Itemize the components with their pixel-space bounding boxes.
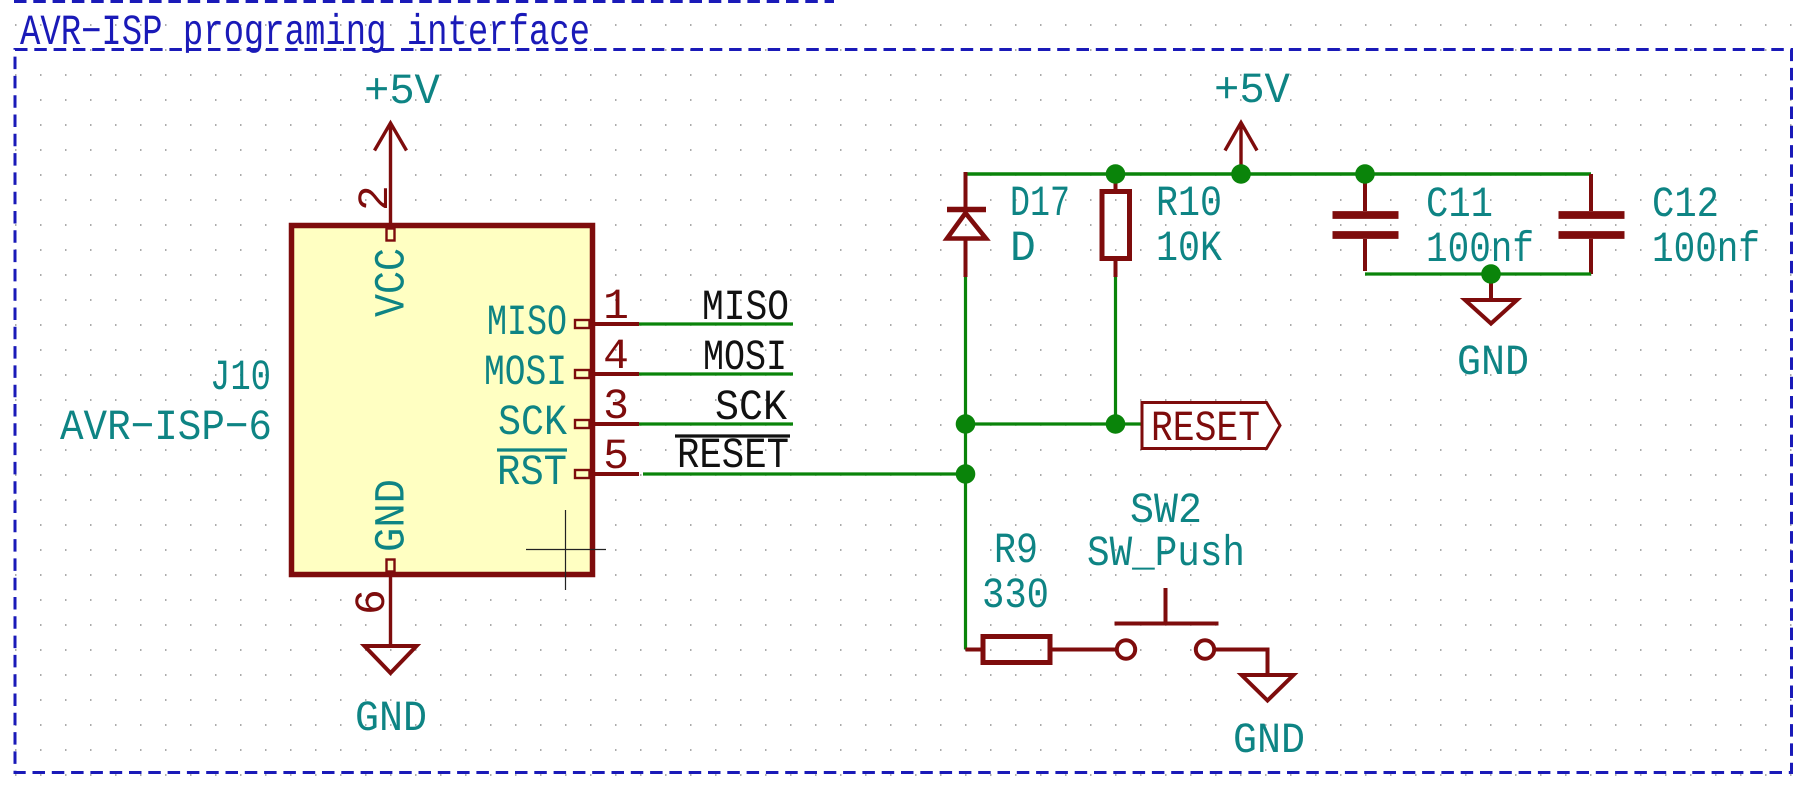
- junction node (965.5,474): [956, 464, 976, 484]
- svg-text:+5V: +5V: [1214, 66, 1290, 115]
- pin 4 stub: [575, 370, 590, 378]
- svg-text:SCK: SCK: [498, 398, 567, 447]
- svg-text:5: 5: [603, 432, 629, 481]
- pin 5 stub: [575, 470, 590, 478]
- global label RESET: [1142, 403, 1280, 449]
- pin 1 stub: [575, 320, 590, 328]
- junction node (1115.5,174): [1106, 164, 1126, 184]
- svg-text:2: 2: [351, 185, 400, 211]
- power +5V symbol (right): [1225, 123, 1257, 175]
- svg-text:RESET: RESET: [677, 431, 789, 480]
- svg-text:MISO: MISO: [487, 298, 567, 347]
- junction node (1491,274): [1481, 264, 1501, 284]
- junction node (965.5,424): [956, 414, 976, 434]
- svg-text:AVR−ISP−6: AVR−ISP−6: [60, 403, 272, 452]
- junction node (1241,174): [1231, 164, 1251, 184]
- pin 6 stub: [387, 560, 395, 572]
- svg-text:GND: GND: [368, 479, 417, 552]
- svg-text:330: 330: [982, 571, 1049, 620]
- wire +5V rail: [966, 172, 1592, 175]
- svg-text:C11: C11: [1426, 180, 1493, 229]
- RST overline: [497, 448, 567, 451]
- svg-text:10K: 10K: [1156, 224, 1222, 273]
- wire to RESET global label: [966, 422, 1142, 425]
- svg-text:R9: R9: [994, 526, 1038, 575]
- pin 3 SCK line: [594, 422, 639, 426]
- wire SCK: [639, 422, 793, 425]
- svg-text:D17: D17: [1010, 179, 1070, 228]
- svg-text:C12: C12: [1652, 180, 1719, 229]
- wire capacitor ground bus: [1365, 272, 1591, 275]
- svg-text:GND: GND: [1233, 716, 1305, 765]
- svg-text:J10: J10: [210, 353, 271, 402]
- junction node (1365,174): [1355, 164, 1375, 184]
- svg-text:AVR−ISP programing interface: AVR−ISP programing interface: [20, 8, 590, 57]
- pin 3 stub: [575, 420, 590, 428]
- svg-text:6: 6: [348, 589, 397, 615]
- svg-text:MOSI: MOSI: [703, 333, 787, 382]
- wire MISO: [639, 322, 793, 325]
- wire D17 branch down: [964, 277, 967, 650]
- ground symbol (capacitors): [1465, 274, 1517, 324]
- svg-text:GND: GND: [355, 694, 427, 743]
- svg-text:SW2: SW2: [1130, 486, 1202, 535]
- svg-text:100nf: 100nf: [1426, 225, 1534, 274]
- wire R10 branch down: [1114, 277, 1117, 424]
- svg-text:RST: RST: [497, 448, 567, 497]
- connector J10 body: [292, 226, 593, 575]
- junction node (1115.5,424): [1106, 414, 1126, 434]
- pin 4 MOSI line: [594, 372, 639, 376]
- pin 6 line: [389, 577, 392, 646]
- capacitor C11: [1333, 177, 1399, 271]
- svg-text:3: 3: [603, 382, 629, 431]
- svg-text:MISO: MISO: [702, 283, 789, 332]
- svg-text:VCC: VCC: [368, 248, 417, 317]
- svg-text:+5V: +5V: [364, 67, 440, 116]
- pin 5 RST line: [594, 472, 639, 476]
- resistor R10: [1102, 174, 1130, 277]
- crosshair cursor: [526, 510, 606, 590]
- wire SW2 to ground: [1216, 650, 1268, 676]
- svg-text:D: D: [1010, 224, 1036, 273]
- svg-text:MOSI: MOSI: [484, 348, 567, 397]
- svg-text:1: 1: [603, 282, 629, 331]
- power +5V symbol (left): [375, 123, 407, 223]
- pin 1 MISO line: [594, 322, 639, 326]
- svg-text:RESET: RESET: [1151, 404, 1260, 453]
- svg-text:GND: GND: [1457, 338, 1529, 387]
- svg-text:SCK: SCK: [715, 383, 787, 432]
- switch SW2: [1115, 588, 1219, 659]
- wire MOSI: [639, 372, 793, 375]
- RESET overline: [675, 434, 790, 437]
- svg-text:SW_Push: SW_Push: [1087, 529, 1245, 578]
- svg-text:R10: R10: [1156, 179, 1222, 228]
- resistor R9: [966, 637, 1116, 663]
- pin 2 stub: [387, 229, 395, 241]
- diode D17: [947, 172, 986, 277]
- ground symbol (SW2): [1242, 675, 1294, 701]
- capacitor C12: [1559, 174, 1625, 274]
- ground symbol under J10: [365, 646, 417, 673]
- svg-text:100nf: 100nf: [1652, 225, 1760, 274]
- svg-text:4: 4: [603, 332, 629, 381]
- wire RST to node: [643, 472, 966, 475]
